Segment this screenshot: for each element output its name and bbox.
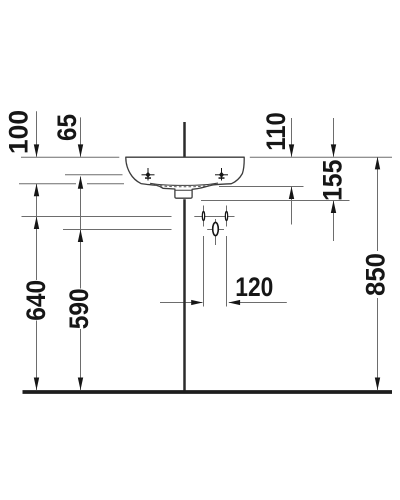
arrow floor 850 down [375,378,380,391]
drain cover inner lip line [175,189,192,191]
dimension 850 vertical upper part [377,157,379,251]
dimension 65 upper extension [80,117,82,156]
rim reference line left segment [21,156,119,158]
dimension 110 upper extension [291,118,293,157]
tap hole marker left [142,168,155,181]
arrow floor 640 down [34,378,39,391]
120 extension line right [226,236,228,307]
100 reference line y184 right part [87,183,124,185]
dimension 590 vertical lower part [80,329,82,390]
arrow floor 590 down [78,378,83,391]
arrow 65 up [78,176,83,189]
drain connection oval centre [213,222,219,235]
basin hidden bowl edge (dashed) [155,185,213,187]
dimension 155 upper extension [333,118,335,157]
dimension 850 vertical lower part [377,298,379,390]
arrow 640 up [34,217,39,230]
dimension 65/590 vertical upper part [80,177,82,289]
120 dimension line left segment [160,302,203,304]
110 reference line y186 [219,186,304,188]
svg-text:850: 850 [361,253,391,296]
svg-text:155: 155 [318,160,348,202]
120 dimension line right segment [229,302,287,304]
100 reference line y184 left part [19,183,76,185]
dimension 640 vertical lower part [36,321,38,391]
supply oval left vertical [203,206,205,227]
floor line [23,390,393,394]
arrow 155 down [331,144,336,157]
65 reference line y175 [65,174,123,176]
drain oval vertical [215,219,217,245]
dimension 155 lower tail [333,201,335,241]
arrow 100 up [34,184,39,197]
svg-text:110: 110 [261,112,291,151]
crosshair line through supply ovals y216 [194,216,234,218]
arrow 100 down [34,144,39,157]
basin bowl recess front edge [150,183,218,185]
arrow 110 down [289,144,294,157]
120 extension line left [203,236,205,307]
svg-text:120: 120 [235,272,273,302]
155 reference line y200 [201,200,350,202]
640 reference line y216 [22,216,172,218]
crosshair line through drain oval y229 [207,229,224,231]
rim reference line right segment [250,156,392,158]
arrow 850 up [375,157,380,170]
dimension 100/640 lower vertical upper part [36,184,38,280]
590 reference line y229 [63,229,172,231]
dimension 100 upper extension [36,111,38,156]
wall center line below basin [183,199,186,391]
svg-text:65: 65 [52,114,82,141]
arrow 65 down [78,144,83,157]
svg-text:640: 640 [21,280,51,321]
svg-text:590: 590 [64,288,94,329]
wall center line above basin [183,122,186,157]
svg-text:100: 100 [4,110,34,154]
dimension 110 lower tail [291,187,293,225]
arrow 110 up [289,187,294,200]
tap hole marker right [215,168,228,181]
supply connection oval right [225,211,227,220]
arrow 120 pointing left [229,300,241,305]
arrow 155 up [331,201,336,214]
supply connection oval left [202,211,204,220]
washbasin outline (front view) [126,157,244,198]
arrow 120 pointing right [191,300,203,305]
supply oval right vertical [226,206,228,227]
arrow 590 up [78,230,83,243]
